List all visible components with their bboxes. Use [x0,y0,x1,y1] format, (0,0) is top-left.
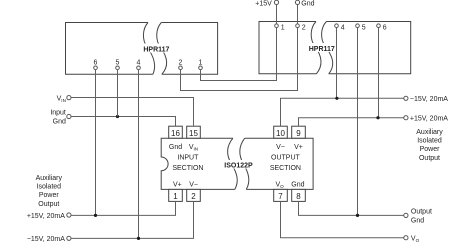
svg-text:VIN: VIN [189,144,198,152]
wire U2 pin 5 down to output gnd net [357,28,359,216]
svg-text:V+: V+ [173,182,182,189]
svg-text:6: 6 [383,25,387,32]
wire Gnd net: U2 pin2 down through module and left to U1 pin2 [181,28,298,91]
svg-text:4: 4 [341,25,345,32]
svg-text:OUTPUT: OUTPUT [271,155,301,162]
svg-text:9: 9 [296,129,301,138]
svg-text:2: 2 [179,59,183,66]
terminal +15V (top) [255,0,278,7]
svg-text:16: 16 [171,129,180,138]
svg-text:Isolated: Isolated [417,138,442,145]
wire U2 pin 4 down to -15V right net [336,28,338,99]
svg-text:Gnd: Gnd [53,119,66,126]
svg-text:10: 10 [276,129,285,138]
U3 pin 7 box [274,189,288,201]
terminal -15V 20mA (left) [27,236,71,243]
svg-text:HPR117: HPR117 [143,47,169,54]
svg-text:VO: VO [275,182,284,190]
svg-text:HPR117: HPR117 [309,46,335,53]
terminal +15V 20mA (right) [404,116,449,123]
break squiggle right of HPR117 U1 [157,23,167,75]
wire +15V net: U2 pin1 down through module and left to U1 pin1 [201,28,277,81]
terminal VO (right) [404,236,420,244]
terminal Output Gnd (right) [404,208,432,224]
svg-text:−15V, 20mA: −15V, 20mA [27,236,65,243]
torn edge right of input section [228,138,238,189]
svg-text:V−: V− [189,182,198,189]
wire U1 pin 6 down to +15V aux net [95,70,97,216]
terminal Gnd (top) [295,0,314,7]
U3 pin 16 box [169,126,183,138]
junction U1 pin6 to +15V aux wire [94,214,97,217]
svg-text:VO: VO [411,236,420,244]
terminal VIN (left) [57,95,71,103]
U3 pin 10 box [274,126,288,138]
terminal +15V 20mA (left) [27,213,71,220]
svg-text:4: 4 [137,59,141,66]
U2 pin 5 [356,24,366,32]
U1 pin 1 [199,59,203,69]
svg-text:2: 2 [191,192,196,201]
U1 pin 6 [94,59,98,69]
svg-text:Output: Output [411,208,432,215]
DC/DC converter U1 HPR117 (left module outline) [66,23,218,75]
svg-text:Input: Input [50,110,66,117]
svg-text:SECTION: SECTION [270,165,301,172]
svg-text:Gnd: Gnd [411,217,424,224]
wire -15V 20mA terminal to U3 pin 2 [71,201,194,238]
label HPR117 (U2) [309,43,336,53]
U3 output section title [270,155,301,172]
label HPR117 (U1) [143,44,170,54]
svg-text:Auxiliary: Auxiliary [36,175,63,182]
terminal Input Gnd (left) [50,110,71,126]
svg-text:Gnd: Gnd [291,182,304,189]
terminal -15V 20mA (right) [404,96,449,103]
wire U2 pin 6 down to +15V right net [378,28,380,118]
svg-text:5: 5 [362,25,366,32]
junction U2 pin5 to output gnd wire [356,214,359,217]
label auxiliary isolated power output (left) [36,175,63,208]
svg-text:Isolated: Isolated [37,184,62,191]
U2 pin 2 [296,24,306,32]
svg-text:7: 7 [278,192,283,201]
wire U1 pin 4 down to -15V aux net [138,70,140,239]
junction U1 pin4 to -15V aux wire [137,237,140,240]
svg-text:Output: Output [419,155,440,162]
wire VIN terminal to U3 pin 15 [71,98,194,127]
break squiggle left of HPR117 U1 [143,23,154,75]
svg-text:−15V, 20mA: −15V, 20mA [410,96,448,103]
label auxiliary isolated power output (right) [416,129,443,162]
svg-text:+15V, 20mA: +15V, 20mA [410,116,448,123]
svg-text:5: 5 [116,59,120,66]
U2 pin 4 [335,24,345,32]
svg-text:SECTION: SECTION [172,165,203,172]
svg-text:2: 2 [302,25,306,32]
U3 input section title [172,155,203,172]
U3 pin 9 box [292,126,306,138]
svg-text:+15V, 20mA: +15V, 20mA [27,213,65,220]
svg-text:ISO122P: ISO122P [224,162,253,169]
svg-text:15: 15 [189,129,198,138]
svg-text:Gnd: Gnd [169,144,182,151]
svg-text:Gnd: Gnd [301,0,314,7]
wire +15V 20mA terminal to U3 pin 1 [71,201,176,215]
wire -15V right net: U3 pin10 up and right to terminal [281,98,404,126]
isolation amplifier U3 ISO122P input section body [161,138,235,189]
svg-text:1: 1 [199,59,203,66]
svg-text:V−: V− [276,144,285,151]
svg-text:V+: V+ [294,144,303,151]
svg-text:INPUT: INPUT [177,155,199,162]
svg-text:1: 1 [173,192,178,201]
U1 pin 4 [137,59,141,69]
svg-text:Auxiliary: Auxiliary [416,129,443,136]
wire output gnd net: U3 pin8 down and right to terminal [299,201,404,215]
U3 pin 2 box [187,189,201,201]
wire Input Gnd terminal to U3 pin 16 [71,117,176,127]
svg-text:8: 8 [296,192,301,201]
U3 pin 1 box [169,189,183,201]
svg-text:Output: Output [38,201,59,208]
svg-text:Power: Power [39,192,60,199]
junction U1 pin5 to Input Gnd wire [116,115,119,118]
DC/DC converter U2 HPR117 (right module outline) [259,22,411,74]
U2 pin 1 [275,24,285,32]
break squiggle right of HPR117 U2 [322,22,333,74]
svg-text:1: 1 [281,25,285,32]
U1 pin 2 [179,59,183,69]
U3 pin 15 box [187,126,201,138]
wire U1 pin 5 down to Input Gnd net [117,70,119,117]
svg-text:+15V: +15V [255,0,272,7]
U3 pin 8 box [292,189,306,201]
svg-text:Power: Power [420,146,441,153]
wire +15V terminal to U2 pin 1 [276,5,278,24]
isolation amplifier U3 ISO122P output section body [245,138,313,189]
wire VO net: U3 pin7 down and right to terminal [281,201,404,237]
torn edge left of output section [240,138,249,189]
svg-text:6: 6 [94,59,98,66]
U2 pin 6 [377,24,387,32]
junction U2 pin6 to +15V right wire [376,116,379,119]
junction U2 pin4 to -15V right wire [335,97,338,100]
wire +15V right net: U3 pin9 up and right to terminal [299,118,404,127]
wire Gnd terminal to U2 pin 2 [297,5,299,24]
label ISO122P (U3) [224,160,253,169]
svg-text:VIN: VIN [57,95,66,103]
break squiggle left of HPR117 U2 [311,22,321,74]
U1 pin 5 [116,59,120,69]
